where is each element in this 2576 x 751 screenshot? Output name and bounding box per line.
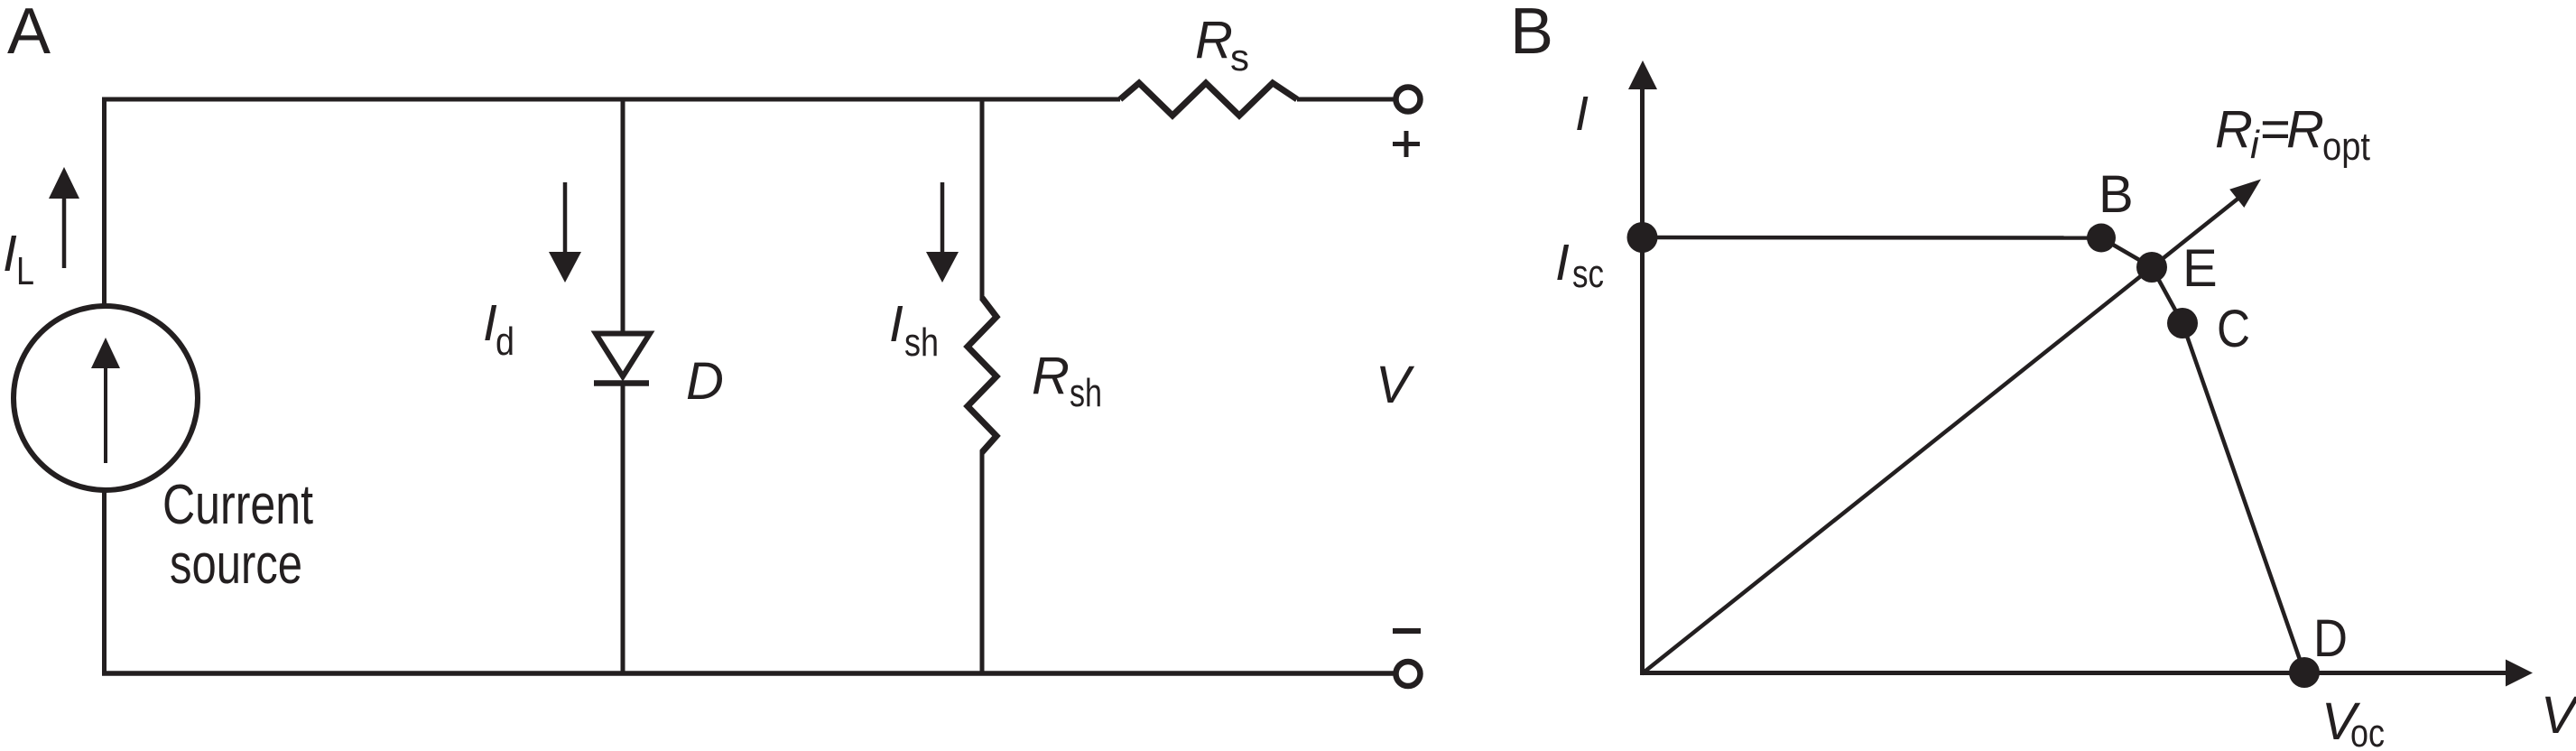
curve segment B-E xyxy=(2101,238,2152,268)
svg-text:A: A xyxy=(7,0,51,68)
point Isc xyxy=(1627,222,1658,253)
svg-text:I: I xyxy=(889,295,903,353)
svg-text:L: L xyxy=(16,249,34,293)
svg-text:D: D xyxy=(686,352,724,411)
svg-text:source: source xyxy=(170,533,302,596)
terminal minus xyxy=(1396,662,1421,686)
axis V horizontal xyxy=(1640,660,2533,687)
svg-text:R: R xyxy=(2215,100,2253,159)
wire to positive terminal xyxy=(1297,97,1395,102)
svg-text:B: B xyxy=(2099,165,2134,224)
wire left xyxy=(102,99,107,307)
label Voc xyxy=(2321,692,2385,751)
point E xyxy=(2136,252,2167,283)
svg-text:V: V xyxy=(1376,356,1415,414)
svg-text:d: d xyxy=(496,320,514,364)
current source xyxy=(14,306,198,490)
label R_s xyxy=(1195,11,1249,79)
arrow I_sh xyxy=(926,182,959,283)
load line Ri=Ropt xyxy=(1642,180,2261,674)
svg-text:sh: sh xyxy=(904,320,939,365)
wire shunt bottom xyxy=(980,450,985,673)
svg-text:opt: opt xyxy=(2322,125,2370,169)
svg-text:I: I xyxy=(1555,234,1570,292)
wire top xyxy=(102,97,1120,102)
label plus xyxy=(1393,131,1420,157)
label Current source xyxy=(162,474,313,596)
svg-text:R: R xyxy=(1195,11,1233,70)
point D xyxy=(2289,657,2320,688)
label minus xyxy=(1393,628,1421,634)
point C xyxy=(2167,308,2198,338)
svg-text:oc: oc xyxy=(2350,711,2385,751)
wire left lower xyxy=(102,490,107,673)
line Isc to B xyxy=(1642,236,2101,240)
label Ri=Ropt xyxy=(2215,100,2370,169)
axis I vertical xyxy=(1628,60,1657,675)
point B xyxy=(2087,224,2116,253)
svg-text:sc: sc xyxy=(1572,252,1604,296)
svg-text:C: C xyxy=(2217,300,2250,358)
svg-text:R: R xyxy=(2286,100,2324,159)
svg-text:I: I xyxy=(3,225,17,283)
svg-text:i: i xyxy=(2250,123,2260,167)
resistor R_s xyxy=(1120,83,1297,116)
arrow I_L xyxy=(49,167,79,268)
svg-text:E: E xyxy=(2182,239,2218,298)
svg-text:V: V xyxy=(2541,686,2576,745)
svg-text:s: s xyxy=(1230,36,1249,79)
wire diode cathode xyxy=(621,384,625,673)
label Isc xyxy=(1555,234,1604,296)
terminal plus xyxy=(1396,88,1421,112)
label R_sh xyxy=(1032,347,1102,415)
resistor R_sh xyxy=(968,298,996,452)
wire bottom xyxy=(102,671,1395,676)
label I_L xyxy=(3,225,34,293)
arrow I_d xyxy=(549,182,581,283)
label I_d xyxy=(483,294,514,364)
svg-text:I: I xyxy=(1575,87,1589,141)
curve segment E-C xyxy=(2152,267,2182,323)
curve segment C-D xyxy=(2182,323,2304,672)
svg-text:Current: Current xyxy=(162,474,313,536)
svg-text:R: R xyxy=(1032,347,1070,405)
wire diode anode xyxy=(621,99,625,333)
svg-text:B: B xyxy=(1510,0,1553,68)
svg-text:sh: sh xyxy=(1070,371,1102,415)
label I_sh xyxy=(889,295,939,365)
svg-text:D: D xyxy=(2313,609,2348,668)
diode D xyxy=(594,334,650,384)
wire shunt top xyxy=(980,99,985,300)
